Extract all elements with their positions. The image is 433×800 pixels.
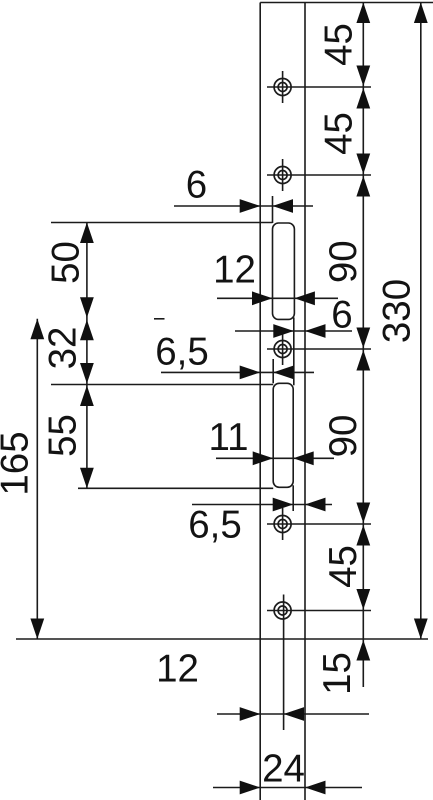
arrow up from below ref line for 15 dim [356,640,370,661]
dim 12 hole centre offset right-pointing arrow [240,707,261,721]
svg-text:45: 45 [318,112,361,155]
svg-text:6: 6 [331,294,352,337]
extension slot right edges between slots [293,317,295,385]
extension slot2 left edge upward [272,359,274,383]
dim 11 slot2 width left-pointing arrow [293,451,314,465]
arrow up 330 top [414,3,428,24]
hole H3 [267,333,371,365]
extension slot2 bottom for 55 dim [78,487,273,489]
dimension line B 330 overall [420,3,422,640]
dimension line V5 50/32/55 chain [86,223,88,489]
svg-text:45: 45 [322,545,365,588]
svg-text:6,5: 6,5 [155,331,209,374]
double arrow at lock axis tick [80,297,94,340]
dim 11 slot2 width line [216,457,334,459]
plate left edge [259,3,261,800]
dim 6 plate edge to slot1 right-pointing arrow [240,199,261,213]
extension slot1 top for 50 dim [51,222,273,224]
tick lock axis reference [154,318,165,320]
slot S2 lower cutout 11x55 [273,383,293,487]
svg-text:12: 12 [156,648,199,691]
arrow up 50 top [80,223,94,244]
arrow down 165 bottom [30,619,44,640]
hole H5 [267,595,371,731]
arrow up 165 top [30,319,44,340]
svg-text:55: 55 [42,414,85,457]
svg-text:6: 6 [186,164,207,207]
slot S1 upper cutout 12x50 [273,223,295,319]
svg-text:90: 90 [322,240,365,283]
dimension line V6 165 [36,319,38,639]
double arrow at H4 [356,503,370,546]
double arrow at slot2 top [80,363,94,406]
double arrow at H1 [356,66,370,109]
svg-text:90: 90 [322,415,365,458]
dimension line A 45/45/90/90/45/15 chain [362,3,364,688]
svg-text:11: 11 [209,416,249,459]
double arrow at H3 [356,328,370,371]
svg-text:45: 45 [318,23,361,66]
svg-text:50: 50 [45,241,88,284]
dim 6 slot1 to plate right left-pointing arrow [305,324,326,338]
svg-text:165: 165 [0,431,37,495]
dim 6 slot1 to plate right line [235,330,352,332]
svg-text:15: 15 [316,652,359,695]
dim 12 hole centre offset left-pointing arrow [284,707,305,721]
svg-text:6,5: 6,5 [188,504,242,547]
bottom reference line for 330/165/15 dims [16,638,428,640]
dim 11 slot2 width right-pointing arrow [253,451,274,465]
svg-text:12: 12 [213,249,256,292]
arrow down 55 bottom [80,468,94,489]
dim 6 plate edge to slot1 line [174,205,313,207]
dim 12 slot1 width right-pointing arrow [252,291,273,305]
arrow down 330 bottom [414,619,428,640]
svg-text:24: 24 [262,748,305,791]
dim 6 plate edge to slot1 left-pointing arrow [273,199,294,213]
hole H4 [267,508,371,540]
dim 12 slot1 width left-pointing arrow [294,291,315,305]
double arrow at H2 [356,154,370,197]
plate right edge [304,3,306,800]
hole H1 [267,71,371,103]
extension slot2 right edge downward [292,485,294,511]
dim 6,5 plate edge to slot2 line [161,371,314,373]
dim 24 plate width line [213,787,362,789]
dim 12 slot1 width line [217,297,338,299]
dim 6,5 slot2 to plate right line [192,504,332,506]
dim 6,5 slot2 to plate right left-pointing arrow [305,498,326,512]
dim 24 plate width left-pointing arrow [305,781,326,795]
extension slot2 top for 32/55 dim [51,384,273,386]
extension slot1 left edge upward [272,196,274,223]
dim 6 slot1 to plate right right-pointing arrow [273,324,294,338]
arrow up top of 45 chain [356,3,370,24]
arrow down at H5 [356,589,370,610]
svg-text:330: 330 [376,279,419,343]
hole H2 [267,159,371,191]
dim 12 hole centre offset line [217,713,369,715]
dim 6,5 slot2 to plate right right-pointing arrow [273,498,294,512]
plate top edge with extension to right [260,2,433,4]
dim 6,5 plate edge to slot2 left-pointing arrow [273,366,294,380]
dim 24 plate width right-pointing arrow [240,781,261,795]
dim 6,5 plate edge to slot2 right-pointing arrow [240,366,261,380]
svg-text:32: 32 [42,327,85,370]
